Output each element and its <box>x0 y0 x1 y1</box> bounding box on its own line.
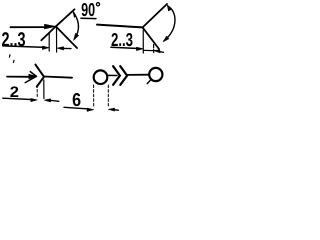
fig3 dimension tail right <box>51 99 59 102</box>
fig2 dimension arrow right <box>153 50 160 53</box>
fig4 dimension leader line <box>64 107 87 109</box>
fig3 dimension leader line <box>3 98 31 99</box>
fig4 line to circle 2 <box>127 74 149 76</box>
fig1 dimension arrow right <box>57 47 64 50</box>
fig2 extension line from vertex <box>142 30 144 53</box>
fig3 speck <box>12 60 15 62</box>
fig2 angle arc <box>164 6 175 41</box>
fig1 speck <box>8 55 11 57</box>
fig1 dimension arrow left <box>42 46 49 49</box>
fig2 dimension tail right <box>160 51 164 54</box>
fig2 label 2..3 <box>112 33 133 46</box>
fig1 dimension leader line <box>3 46 42 47</box>
fig1 ray SE <box>56 26 77 48</box>
fig2 dimension arrow left <box>136 47 143 50</box>
fig2 baseline <box>97 25 143 28</box>
fig4 dimension tail right <box>115 109 119 111</box>
fig3 extension line right <box>43 80 45 99</box>
fig1 label 90deg <box>82 3 95 16</box>
fig1 extension line from vertex <box>56 28 58 53</box>
fig3 label 2 <box>10 86 18 97</box>
fig1 angle arc <box>73 12 78 39</box>
fig2 extension line right <box>153 45 155 55</box>
fig2 arc arrowhead bottom <box>163 36 169 41</box>
fig4 circle 2 tail <box>147 80 150 84</box>
fig4 chevron A <box>113 66 120 85</box>
fig3 dimension arrow right <box>44 99 50 102</box>
fig1 ray NE <box>56 9 75 26</box>
fig4 link line <box>108 74 117 76</box>
fig1 ray SW <box>41 26 56 40</box>
fig3 dimension arrow left <box>31 98 37 101</box>
fig2 arc arrowhead top <box>167 5 171 11</box>
fig1 dimension tail right <box>64 47 71 49</box>
fig4 extension line right <box>107 85 109 107</box>
fig1 arc arrowhead bottom <box>74 33 79 40</box>
fig3 extension line left <box>36 85 38 98</box>
fig1 label 2..3 <box>2 32 25 46</box>
fig3 line right of chevron <box>44 77 72 78</box>
fig4 punch mark circle 1 <box>94 70 108 84</box>
fig4 punch mark circle 2 <box>149 68 162 81</box>
fig4 dimension arrow left <box>87 108 94 111</box>
fig1 arc arrowhead top <box>73 12 76 18</box>
fig2 dimension leader line <box>111 47 136 48</box>
fig4 label 6 <box>73 93 81 106</box>
fig3 lead line with barbed arrow <box>7 72 36 83</box>
fig4 chevron B <box>120 66 127 85</box>
fig1 degree symbol <box>96 3 99 6</box>
fig1 baseline with arrow <box>11 24 56 29</box>
fig1 extension line left <box>48 33 50 51</box>
fig4 dimension arrow right <box>108 108 114 111</box>
fig2 ray up-right <box>143 4 167 27</box>
fig2 dimension line middle <box>143 49 153 51</box>
fig3 chevron <box>35 65 44 87</box>
fig4 extension line left <box>93 85 95 108</box>
fig2 ray down-right <box>143 27 159 49</box>
fig1 label 90 underline <box>81 17 96 19</box>
